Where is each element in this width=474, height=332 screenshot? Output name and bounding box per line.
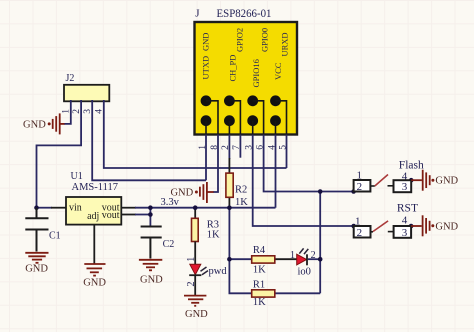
svg-text:vin: vin [69,203,82,214]
resistor R1 [252,290,275,297]
wire J2 pin4 to ESP URXD [104,100,287,168]
wire 3.3v rail right [135,207,276,209]
svg-text:AMS-1117: AMS-1117 [72,182,118,193]
wire ESP pin8 to GND port [213,135,218,193]
svg-text:R1: R1 [253,280,265,291]
junction R4 left [227,257,232,262]
switch RST actuator [373,221,388,232]
wire pad 8 exit [206,101,218,135]
wire J2 pin3 to ESP UTXD [92,100,206,180]
port stub (J2 GND) [60,123,65,125]
wire pad 3 stub [252,121,254,135]
svg-text:CH_PD: CH_PD [227,55,237,82]
wire ESP pin3 to RST row [253,135,354,227]
svg-text:3.3v: 3.3v [161,197,180,208]
wire R3 top [194,208,196,219]
svg-text:GND: GND [435,221,458,232]
svg-text:J: J [195,8,200,20]
pin U1 vout [121,207,136,209]
svg-text:ESP8266-01: ESP8266-01 [217,8,272,20]
switch Flash actuator [375,175,388,187]
capacitor C1 [25,208,48,252]
svg-text:1K: 1K [235,197,248,208]
svg-text:U1: U1 [71,171,83,182]
svg-text:4: 4 [402,215,408,227]
svg-text:2: 2 [311,250,316,261]
svg-text:3: 3 [402,181,408,193]
pad pin 2 [224,115,235,126]
port stub (ESP GND) [207,191,214,193]
wire RST to GND port [411,225,422,227]
svg-text:R2: R2 [235,185,247,196]
svg-text:C2: C2 [163,239,175,250]
connector J2 body [64,85,109,102]
junction Flash sw pin12 [351,189,356,194]
svg-text:GPIO0: GPIO0 [260,28,270,52]
junction vout/rail [148,205,153,210]
svg-text:R4: R4 [253,245,266,256]
switch Flash stub right [388,185,394,187]
junction vout2/C2 [148,212,153,217]
wire ESP pin4 VCC down [275,135,277,208]
wire C2 tap [149,207,151,227]
svg-text:1K: 1K [253,265,266,276]
wire 3.3v rail left [37,207,53,209]
wire LED pwd to ground [194,275,196,295]
pad pin 5 [270,95,281,106]
svg-text:GND: GND [140,275,163,286]
wire ESP pin7 stub [239,135,241,158]
svg-text:2: 2 [357,227,363,239]
LED io0 arrows [299,248,308,254]
LED io0 cathode bar [306,254,308,265]
switch RST left box [354,226,371,238]
svg-text:C1: C1 [49,231,61,242]
svg-text:URXD: URXD [280,32,290,56]
ground (LED pwd) [184,296,206,306]
junction R3/rail [193,205,198,210]
svg-text:GND: GND [25,264,48,275]
wire Flash to GND port [411,179,422,181]
switch Flash right box [394,180,412,192]
pad pin 3 [247,115,258,126]
regulator U1 body [66,197,121,225]
wire vout2 [135,214,150,216]
svg-text:GND: GND [435,176,458,187]
LED pwd [190,264,201,274]
switch RST right box [394,226,412,238]
power port GND (ESP pin8) [170,182,206,203]
svg-text:GND: GND [23,119,46,130]
svg-text:2: 2 [357,181,363,193]
junction RST sw pin12 [351,224,356,229]
wire R4 to LED io0 [275,258,297,260]
junction RST sw pin43 [409,224,414,229]
ground (C1) [25,253,48,263]
svg-text:3: 3 [402,227,408,239]
resistor R2 [226,173,233,197]
wire pad 4 stub [275,121,277,135]
svg-text:1: 1 [290,250,295,261]
wire R1 right [275,292,320,294]
svg-text:vout: vout [102,210,120,221]
junction vin/C1 [34,205,39,210]
LED pwd cathode bar [189,274,201,276]
svg-text:GND: GND [185,309,208,320]
switch RST stub left [371,231,374,233]
svg-text:adj: adj [87,211,99,222]
power port GND (J2) [23,113,60,134]
switch Flash stub left [370,185,374,187]
wire R4 left [229,258,251,260]
wire pad 2 stub [228,121,230,135]
svg-text:RST: RST [397,202,418,214]
wire pad 6 exit [253,101,264,135]
wire ESP pin1 down [205,135,207,181]
svg-text:1K: 1K [253,297,266,308]
resistor R4 [252,256,275,263]
svg-text:VCC: VCC [273,62,283,80]
pad pin 4 [270,115,281,126]
junction Flash sw pin43 [409,178,414,183]
power port GND (RST) [423,215,459,236]
wire ESP pin2 to R2 [228,135,230,160]
svg-text:GPIO2: GPIO2 [234,28,244,52]
pin U1 vin [51,207,66,209]
junction R2/rail [227,205,232,210]
LED io0 [297,254,307,265]
wire J2 pin2 to vin node [37,100,82,208]
pin U1 vout2 [121,214,136,216]
switch RST stub right [388,231,394,233]
LED pwd arrows [201,267,209,275]
wire pad 1 stub [205,121,207,135]
svg-text:io0: io0 [298,267,311,278]
wire LED io0 to node [308,258,320,260]
svg-text:GPIO16: GPIO16 [251,59,261,87]
power port GND (Flash) [423,170,459,191]
pad pin 7 [224,95,235,106]
ground (U1 adj) [84,264,105,276]
svg-text:UTXD: UTXD [200,56,210,80]
svg-text:GND: GND [83,278,106,289]
module J ESP8266-01 body [195,22,298,135]
wire pad 5 exit [276,101,287,135]
junction LED io0 node [318,257,323,262]
pin U1 adj down [93,225,95,264]
pad pin 6 [247,95,258,106]
wire ESP pin5 down [286,135,288,169]
pad pin 8 [201,95,212,106]
svg-text:pwd: pwd [209,266,228,277]
wire ESP pin6 to Flash row [264,135,354,192]
svg-text:1K: 1K [207,230,220,241]
wire R3 to LED pwd [194,242,196,265]
resistor R3 [192,218,199,241]
pin R2 top [228,158,230,173]
capacitor C2 [141,227,162,259]
svg-text:1: 1 [186,257,197,262]
wire 3.3v drop to R4/R1 [229,208,251,294]
wire pad 7 exit [229,101,240,135]
pad pin 1 [201,115,212,126]
pin R2 bottom [228,197,230,207]
svg-text:GND: GND [201,33,211,51]
svg-text:J2: J2 [66,73,75,84]
ground (C2) [139,260,162,271]
switch Flash left box [354,180,371,192]
wire J2 pin1 to GND port [64,100,71,124]
junction Flash node [318,189,323,194]
wire GPIO0 node vertical [319,192,321,294]
